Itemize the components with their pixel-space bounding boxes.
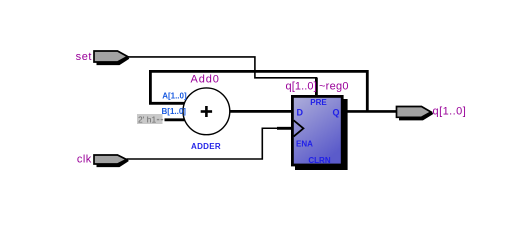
svg-text:~reg0: ~reg0 (319, 81, 349, 93)
wire: clock input stub of register (277, 127, 292, 130)
svg-text:B[1..0]: B[1..0] (162, 107, 187, 116)
clock triangle (294, 120, 304, 136)
input pin set (76, 51, 129, 64)
svg-text:2' h1: 2' h1 (138, 114, 156, 124)
input pin clk (77, 154, 128, 166)
wire: clk net from pin to clock input (127, 128, 281, 159)
svg-text:q[1..0]: q[1..0] (286, 81, 317, 93)
wire: feedback bus q to adder A input (150, 71, 367, 111)
svg-text:CLRN: CLRN (308, 156, 330, 165)
wire: adder output to register D input (228, 110, 293, 113)
svg-text:set: set (76, 51, 92, 63)
op: adder Add0 (183, 88, 230, 135)
wire: constant to adder B input (165, 118, 187, 121)
wire: PRE input stub of register (315, 78, 318, 96)
svg-text:q[1..0]: q[1..0] (433, 106, 467, 118)
svg-text:ENA: ENA (296, 140, 313, 149)
wire: register Q output to pin q[1..0] (344, 110, 398, 113)
output pin q[1..0] (397, 106, 467, 119)
register body (292, 96, 342, 165)
svg-text:clk: clk (77, 154, 92, 166)
svg-text:PRE: PRE (310, 98, 327, 107)
register shadow (295, 99, 348, 170)
svg-text:Q: Q (332, 108, 339, 118)
svg-text:A[1..0]: A[1..0] (162, 91, 187, 100)
svg-text:D: D (297, 108, 304, 118)
svg-text:ADDER: ADDER (191, 142, 221, 151)
svg-text:Add0: Add0 (191, 73, 220, 85)
wire: set net from pin to PRE stub (128, 57, 318, 78)
constant 2'h1 (137, 114, 163, 124)
register q[1..0]~reg0 (292, 96, 347, 170)
